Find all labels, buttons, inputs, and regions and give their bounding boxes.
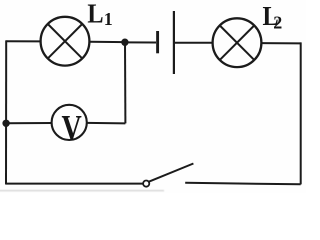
label L1 [87,0,112,29]
wire top-left: corner to lamp L1 [6,40,40,42]
wire: junction A to battery [125,41,156,43]
svg-text:L: L [87,0,103,29]
label L2 [263,1,283,33]
wire: L2 to top-right corner [261,42,300,44]
wire: L1 to junction A [89,41,125,43]
lamp L2 [213,18,262,67]
lamp L1 [41,17,90,66]
wire: left rail [5,40,7,184]
wire: bottom-left segment [6,183,143,185]
wire: bottom-right segment to switch contact [185,183,301,185]
wire: riser to junction A [124,42,126,123]
junction dot B [2,120,9,127]
wire: battery to lamp L2 [175,42,213,44]
wire: right rail [300,42,302,184]
junction dot A [121,39,128,46]
wire: voltmeter to riser [87,122,126,125]
svg-text:2: 2 [273,12,282,32]
switch S (open) [143,164,193,187]
wire: junction B to voltmeter [6,122,52,124]
battery cell [158,11,174,74]
voltmeter V [52,105,87,147]
svg-text:V: V [62,107,82,147]
svg-text:1: 1 [104,9,113,29]
